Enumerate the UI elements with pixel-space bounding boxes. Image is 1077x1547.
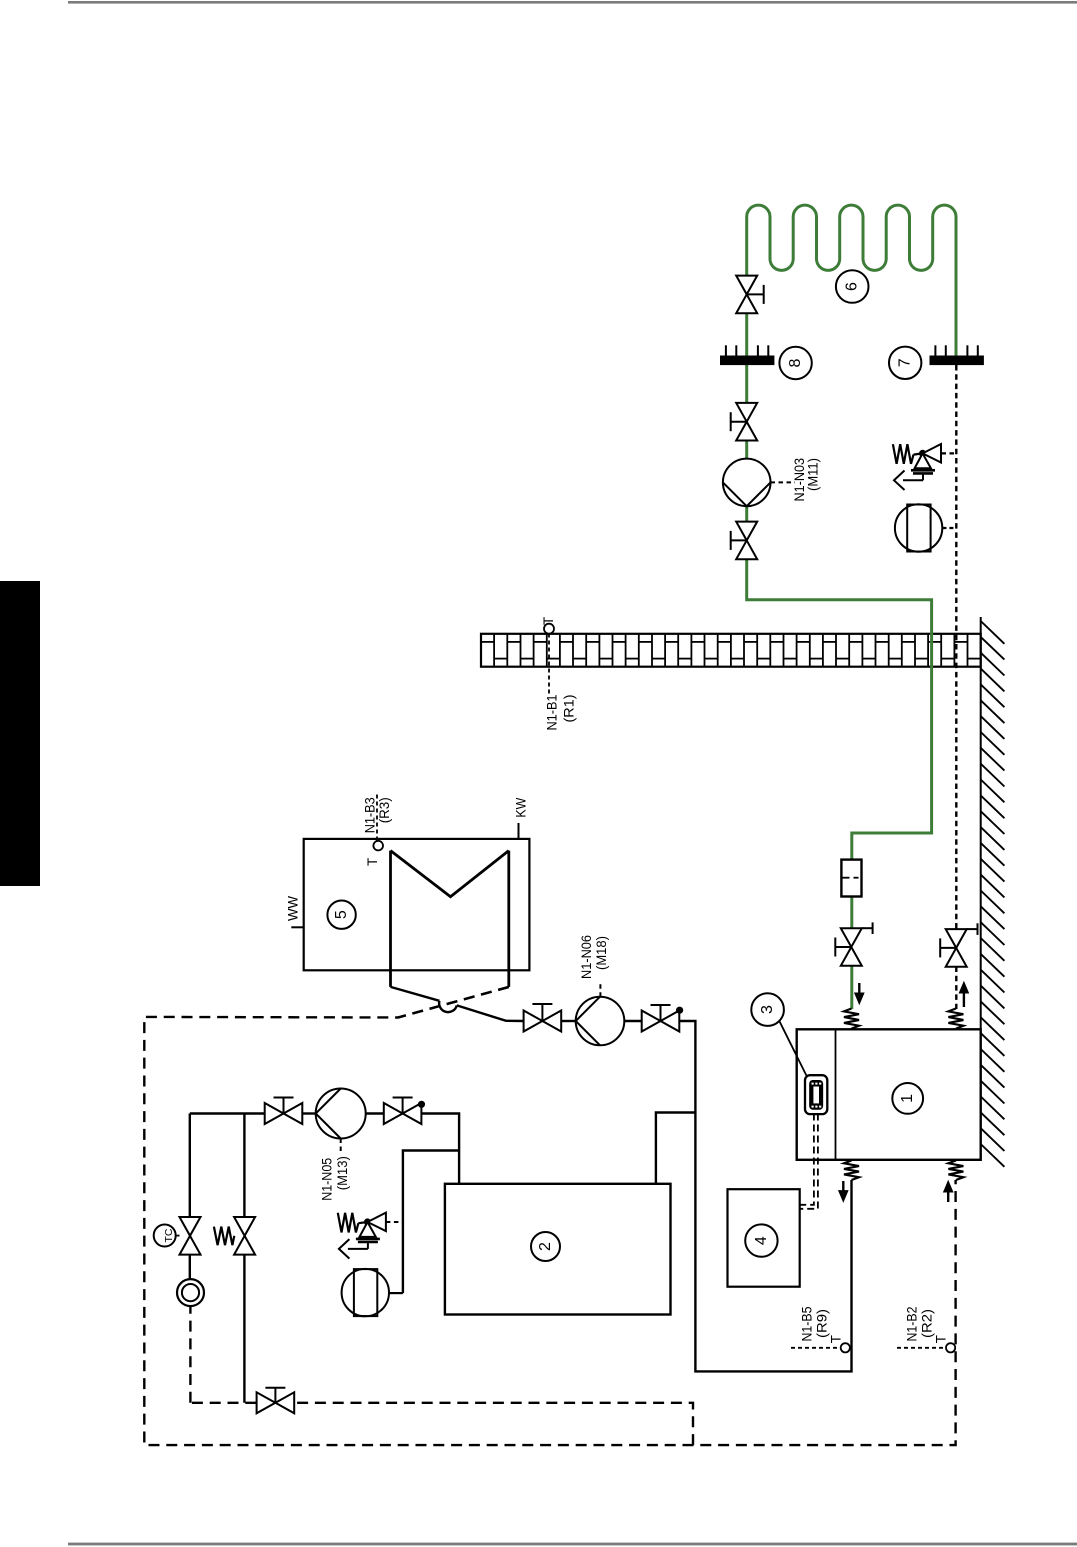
svg-text:N1-N05: N1-N05 <box>319 1158 335 1201</box>
svg-text:6: 6 <box>844 282 861 291</box>
svg-text:5: 5 <box>333 910 350 919</box>
svg-text:N1-B1: N1-B1 <box>544 694 560 730</box>
svg-text:T: T <box>365 858 380 866</box>
svg-text:(M18): (M18) <box>593 936 609 970</box>
svg-text:KW: KW <box>512 797 528 818</box>
svg-text:(R2): (R2) <box>919 1309 935 1338</box>
svg-text:T: T <box>934 1335 949 1343</box>
svg-text:T: T <box>541 617 556 625</box>
svg-text:N1-N06: N1-N06 <box>578 935 594 979</box>
svg-text:TC: TC <box>163 1228 175 1242</box>
svg-text:4: 4 <box>753 1236 770 1245</box>
svg-text:N1-B2: N1-B2 <box>904 1306 920 1341</box>
svg-text:WW: WW <box>284 895 300 921</box>
svg-text:(M11): (M11) <box>805 458 821 491</box>
svg-text:(R1): (R1) <box>561 695 577 723</box>
svg-text:1: 1 <box>899 1094 916 1103</box>
svg-text:(R3): (R3) <box>376 797 392 823</box>
svg-text:7: 7 <box>897 358 914 367</box>
svg-text:3: 3 <box>759 1005 776 1014</box>
svg-text:N1-B5: N1-B5 <box>799 1306 815 1341</box>
svg-text:2: 2 <box>537 1242 554 1251</box>
svg-text:(M13): (M13) <box>334 1156 350 1190</box>
svg-text:T: T <box>829 1335 844 1343</box>
svg-text:8: 8 <box>787 358 804 367</box>
svg-text:(R9): (R9) <box>814 1309 830 1338</box>
